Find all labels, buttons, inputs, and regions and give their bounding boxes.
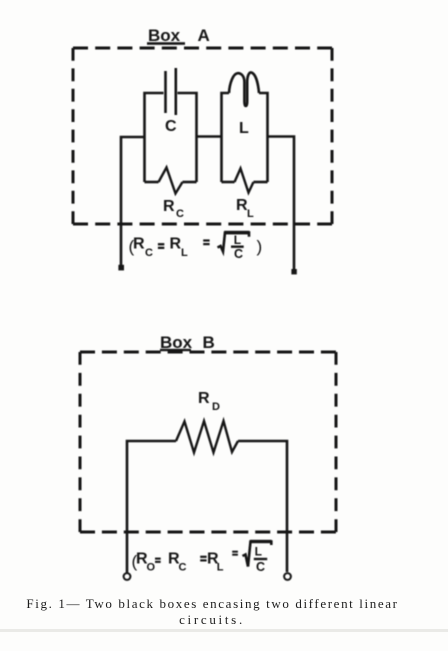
Box B title underline bbox=[160, 349, 191, 351]
svg-text:D: D bbox=[212, 401, 220, 413]
svg-text:C: C bbox=[176, 208, 184, 220]
radical sign of formula B bbox=[243, 542, 272, 567]
svg-text:Box: Box bbox=[148, 26, 181, 45]
label RC bbox=[163, 198, 184, 220]
resistor RL zigzag bbox=[235, 169, 254, 193]
svg-text:B: B bbox=[203, 333, 215, 352]
svg-text:L: L bbox=[239, 120, 249, 137]
formula (RC = RL = sqrt(L/C)) bbox=[129, 233, 263, 261]
wire: L branch to right terminal bbox=[268, 137, 295, 271]
wire: left terminal up to C branch bbox=[121, 137, 145, 267]
svg-text:C: C bbox=[165, 118, 177, 135]
fraction bar of formula A bbox=[231, 245, 244, 247]
svg-text:R: R bbox=[133, 236, 145, 253]
svg-text:L: L bbox=[234, 233, 241, 247]
svg-text:O: O bbox=[147, 562, 156, 574]
svg-text:C: C bbox=[234, 247, 243, 261]
svg-text:C: C bbox=[256, 560, 265, 574]
label RL bbox=[236, 197, 254, 220]
terminal right (Box B, open circle) bbox=[284, 573, 291, 580]
svg-text:L: L bbox=[217, 562, 224, 574]
radical sign of formula A bbox=[218, 233, 250, 252]
svg-text:C: C bbox=[145, 247, 153, 259]
capacitor C plates bbox=[166, 68, 176, 115]
svg-text:L: L bbox=[247, 208, 254, 220]
inductor L coil (two humps with centre loop) bbox=[229, 72, 259, 106]
Box A title label bbox=[148, 26, 210, 45]
Box B title label bbox=[160, 333, 215, 352]
Box B dashed enclosure bbox=[80, 352, 336, 532]
wire: resistor to right terminal (Box B) bbox=[238, 441, 287, 572]
enclosure box of L branch bbox=[222, 93, 230, 182]
label RD bbox=[198, 390, 220, 413]
wire: C branch to L branch bbox=[197, 135, 222, 138]
resistor RD zigzag bbox=[176, 421, 238, 453]
faint scan streak under caption bbox=[0, 629, 448, 632]
Box A dashed enclosure bbox=[73, 48, 332, 224]
terminal left (Box A) bbox=[118, 265, 124, 271]
enclosure box of C branch bbox=[145, 93, 197, 182]
terminal left (Box B, open circle) bbox=[124, 573, 131, 580]
svg-text:L: L bbox=[255, 545, 262, 559]
svg-text:R: R bbox=[170, 236, 182, 253]
svg-text:L: L bbox=[181, 247, 188, 259]
Box A title underline bbox=[147, 42, 185, 45]
fraction bar of formula B bbox=[254, 558, 267, 560]
figure caption bbox=[0, 596, 425, 612]
resistor RC zigzag bbox=[159, 168, 183, 194]
formula (RO = RC = RL = sqrt(L/C)) bbox=[132, 545, 266, 574]
terminal right (Box A) bbox=[291, 269, 296, 274]
svg-text:R: R bbox=[198, 390, 210, 407]
svg-text:): ) bbox=[257, 237, 263, 256]
svg-text:R: R bbox=[163, 198, 175, 215]
wire: left terminal up and across (Box B) bbox=[127, 441, 176, 573]
svg-text:C: C bbox=[179, 562, 187, 574]
svg-text:A: A bbox=[198, 26, 210, 45]
